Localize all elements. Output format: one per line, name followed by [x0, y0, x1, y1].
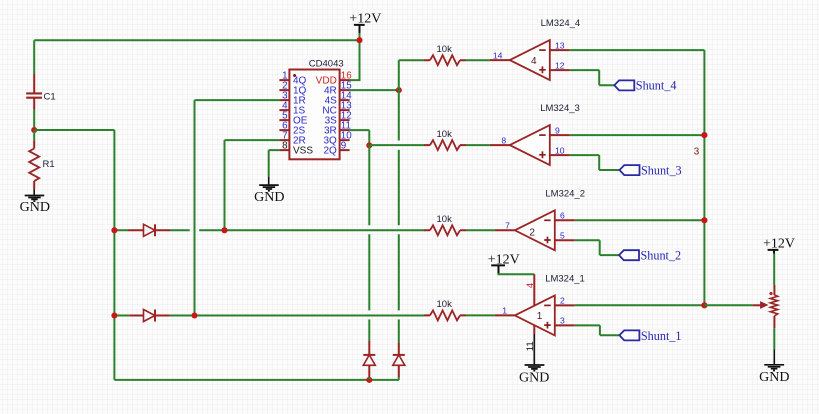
resistor 10k (op2 row): [424, 214, 495, 235]
wire wiper row: [704, 304, 752, 306]
op-amp U2B LM324_2: [495, 188, 585, 250]
ground below R1: [20, 189, 50, 215]
svg-text:LM324_1: LM324_1: [545, 274, 585, 285]
potentiometer wiper arrow: [753, 302, 768, 308]
pin 11 stub (op1 power): [525, 325, 536, 364]
node diode row1 right: [221, 227, 227, 233]
svg-text:+12V: +12V: [763, 237, 795, 252]
svg-text:4: 4: [525, 283, 536, 288]
svg-text:14: 14: [493, 50, 503, 60]
node 10k_3 junction: [366, 142, 372, 148]
port Shunt_1: [619, 329, 681, 343]
svg-text:11: 11: [525, 341, 536, 351]
svg-text:2: 2: [560, 296, 565, 306]
svg-text:13: 13: [555, 40, 565, 50]
svg-text:8: 8: [282, 140, 288, 151]
wire pin3 1R net: [195, 100, 280, 315]
wire op1 pin2 to right net: [575, 304, 705, 306]
node pin15 junction: [396, 87, 402, 93]
node diode row2 mid: [191, 312, 197, 318]
svg-text:3: 3: [694, 146, 700, 157]
wire vertical net x=398.8 (with crossing breaks): [398, 60, 400, 343]
node diode row1 left: [111, 227, 117, 233]
wire junction row to left vertical: [34, 130, 114, 380]
node top +12V junction: [356, 37, 362, 43]
ground below op1: [519, 365, 549, 385]
svg-text:GND: GND: [759, 370, 789, 385]
svg-text:10k: 10k: [437, 214, 453, 225]
wire diode row 2 (y=315.5): [114, 315, 424, 317]
svg-text:4: 4: [531, 56, 537, 67]
svg-text:2Q: 2Q: [323, 146, 337, 157]
resistor R1: [29, 130, 54, 189]
chip left pin stubs: [279, 80, 289, 150]
diode D1: [128, 224, 170, 236]
svg-text:+12V: +12V: [349, 12, 381, 27]
node C1/R1 junction: [31, 127, 37, 133]
svg-text:9: 9: [555, 125, 560, 135]
svg-text:10k: 10k: [437, 129, 453, 140]
wire op1 pin3 to port: [575, 325, 620, 335]
node net3 op3: [701, 132, 707, 138]
node bottom rail: [366, 377, 372, 383]
wire top +12V rail: [34, 40, 359, 74]
resistor 10k (op1 row): [424, 299, 495, 320]
wire op2 pin6 to right net: [575, 219, 705, 221]
chip left pin names: [293, 76, 313, 157]
svg-text:Shunt_2: Shunt_2: [641, 249, 682, 263]
chip right pin names: [316, 76, 337, 157]
svg-text:1: 1: [537, 311, 543, 322]
chip right pin numbers: [341, 70, 352, 151]
capacitor C1: [26, 74, 55, 110]
svg-text:LM324_3: LM324_3: [540, 103, 580, 114]
wire vertical net x=369.3 (with crossing breaks): [368, 145, 370, 341]
wire op4 out pin13 to right net: [570, 50, 705, 305]
node net3 op1/wiper: [701, 302, 707, 308]
svg-text:Shunt_4: Shunt_4: [636, 79, 677, 93]
wire op3 pin9 to right net: [570, 134, 705, 136]
svg-text:1: 1: [502, 306, 507, 316]
svg-text:5: 5: [560, 231, 565, 241]
op-amp U2A LM324_1: [495, 274, 585, 336]
potentiometer RV1: [769, 285, 777, 328]
diode D3 (vertical): [363, 341, 375, 377]
IC U1 CD4043: [279, 59, 352, 160]
svg-text:10k: 10k: [437, 44, 453, 55]
svg-text:C1: C1: [44, 92, 56, 103]
diode D4 (vertical): [393, 343, 405, 377]
wire pin15 4R net: [350, 89, 399, 91]
svg-text:+12V: +12V: [488, 253, 520, 268]
wire op2 pin5 to port: [575, 240, 619, 255]
wire bottom rail: [114, 379, 398, 381]
svg-text:10k: 10k: [437, 299, 453, 310]
pin 1 marker dot: [293, 74, 296, 77]
node diode row2 left: [111, 312, 117, 318]
op-amp U2D LM324_4: [490, 18, 580, 80]
wire pin11 3R net: [350, 130, 370, 145]
wire VDD net: [350, 40, 360, 80]
svg-text:GND: GND: [20, 200, 50, 215]
wire diode row 1 (y=230.3): [114, 229, 424, 231]
svg-text:GND: GND: [519, 370, 549, 385]
ground below CD4043 (VSS): [254, 150, 284, 205]
chip right pin stubs: [340, 80, 350, 150]
svg-text:VSS: VSS: [293, 146, 313, 157]
svg-text:CD4043: CD4043: [309, 59, 344, 70]
wire pot to ground: [773, 328, 775, 349]
svg-text:7: 7: [505, 221, 510, 231]
power +12V (potentiometer): [763, 237, 795, 285]
power +12V (top): [349, 12, 381, 41]
svg-text:2: 2: [529, 228, 535, 239]
wire C1 to junction: [33, 110, 35, 130]
port Shunt_2: [619, 249, 681, 263]
svg-text:10: 10: [555, 145, 565, 155]
svg-text:Shunt_1: Shunt_1: [641, 329, 682, 343]
svg-text:GND: GND: [254, 190, 284, 205]
power +12V (op1 pin4): [488, 253, 535, 275]
node net3 op2: [701, 217, 707, 223]
resistor 10k (op3 row): [369, 129, 490, 150]
port Shunt_3: [620, 164, 682, 178]
svg-text:9: 9: [341, 140, 346, 151]
port Shunt_4: [614, 79, 676, 93]
wire op3 pin10 to port: [570, 155, 620, 170]
wire pin7 2R net: [225, 140, 280, 230]
svg-text:3: 3: [560, 316, 565, 326]
svg-text:12: 12: [555, 60, 565, 70]
svg-text:LM324_4: LM324_4: [541, 18, 581, 29]
svg-text:8: 8: [501, 135, 506, 145]
wire op4 pin12 to port: [570, 70, 615, 85]
op-amp U2C LM324_3: [490, 103, 580, 165]
chip left pin numbers: [282, 70, 288, 151]
ground below potentiometer: [759, 350, 789, 386]
svg-text:R1: R1: [43, 159, 55, 170]
pin 4 stub (op1 power): [525, 274, 536, 305]
svg-text:LM324_2: LM324_2: [545, 188, 585, 199]
svg-text:Shunt_3: Shunt_3: [641, 164, 682, 178]
svg-text:6: 6: [560, 211, 565, 221]
diode D2: [129, 310, 169, 322]
resistor 10k (op4 row): [399, 44, 490, 65]
